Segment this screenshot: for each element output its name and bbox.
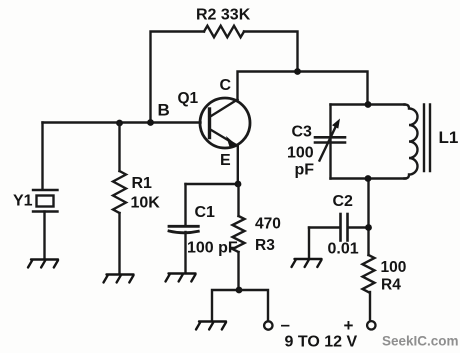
node B junction dot (R2 branch) xyxy=(147,119,154,126)
wire: to minus terminal xyxy=(239,290,268,321)
crystal Y1 xyxy=(33,190,58,212)
svg-text:100: 100 xyxy=(287,145,314,162)
wire: tank bottom xyxy=(331,177,406,179)
svg-text:100 pF: 100 pF xyxy=(187,240,238,257)
svg-text:R1: R1 xyxy=(132,175,153,192)
wire: collector node horizontal xyxy=(238,72,368,105)
ground: R3 / supply minus xyxy=(196,322,226,330)
node junction dot C2/R4 xyxy=(365,224,372,231)
node junction dot tank bottom xyxy=(365,175,372,182)
svg-text:pF: pF xyxy=(295,162,315,179)
inductor core lines xyxy=(423,105,425,172)
svg-text:C2: C2 xyxy=(333,193,354,210)
ground: C1 xyxy=(166,274,196,282)
svg-text:100: 100 xyxy=(381,259,407,276)
inductor L1 xyxy=(405,105,418,179)
tank circuit: left side with C3 xyxy=(329,105,331,179)
wire: tank to C2/R4 vertical xyxy=(367,179,369,256)
svg-text:+: + xyxy=(344,316,354,335)
svg-text:C: C xyxy=(220,77,232,94)
wire: tank top xyxy=(331,103,405,105)
capacitor C2 xyxy=(309,226,340,228)
svg-text:Y1: Y1 xyxy=(13,193,33,210)
ground: Y1 xyxy=(28,260,58,268)
svg-text:B: B xyxy=(158,101,170,120)
node: junction dot at R2/collector xyxy=(294,68,301,75)
wire: bottom-left to ground xyxy=(212,290,239,321)
svg-text:470: 470 xyxy=(255,216,281,233)
terminal minus (open circle) xyxy=(264,321,272,329)
wire xyxy=(244,32,298,72)
svg-text:0.01: 0.01 xyxy=(328,241,359,258)
ground: C2 xyxy=(292,259,322,267)
wire: emitter node horizontal to C1 xyxy=(186,183,239,185)
wire: Y1 bottom lead xyxy=(43,212,45,259)
wire: Y1 top lead xyxy=(41,123,43,190)
svg-text:Q1: Q1 xyxy=(178,90,199,107)
node B junction dot (R1 branch) xyxy=(116,120,123,127)
capacitor C3 (variable) xyxy=(315,136,345,139)
svg-text:–: – xyxy=(281,315,290,334)
wire: base wire xyxy=(43,121,201,123)
resistor R2 xyxy=(204,26,244,37)
resistor R1 xyxy=(113,171,126,213)
node junction dot tank top xyxy=(365,101,372,108)
wire: R1 top lead xyxy=(118,123,120,171)
node E junction dot xyxy=(235,181,242,188)
node junction dot bottom of R3 xyxy=(236,287,243,294)
svg-text:R4: R4 xyxy=(381,277,401,294)
capacitor C1 xyxy=(184,184,186,226)
svg-text:E: E xyxy=(220,152,231,169)
svg-text:C1: C1 xyxy=(195,204,216,221)
terminal plus (open circle) xyxy=(367,321,375,329)
wire top: left vertical from B node up, across to R2, to right vertical down to C-node xyxy=(151,32,205,123)
wire: R1 bottom lead xyxy=(118,213,120,274)
svg-text:SeekIC.com: SeekIC.com xyxy=(382,334,459,349)
transistor Q1 xyxy=(200,98,250,148)
svg-text:R3: R3 xyxy=(255,237,275,254)
svg-text:R2 33K: R2 33K xyxy=(196,7,251,24)
svg-text:L1: L1 xyxy=(439,128,459,147)
resistor R3 xyxy=(237,184,239,216)
svg-text:10K: 10K xyxy=(131,195,161,212)
resistor R4 xyxy=(363,255,375,292)
svg-text:C3: C3 xyxy=(292,124,313,141)
ground: R1 xyxy=(104,275,134,283)
svg-text:9 TO 12 V: 9 TO 12 V xyxy=(285,334,358,351)
wire: emitter lead xyxy=(237,146,239,185)
